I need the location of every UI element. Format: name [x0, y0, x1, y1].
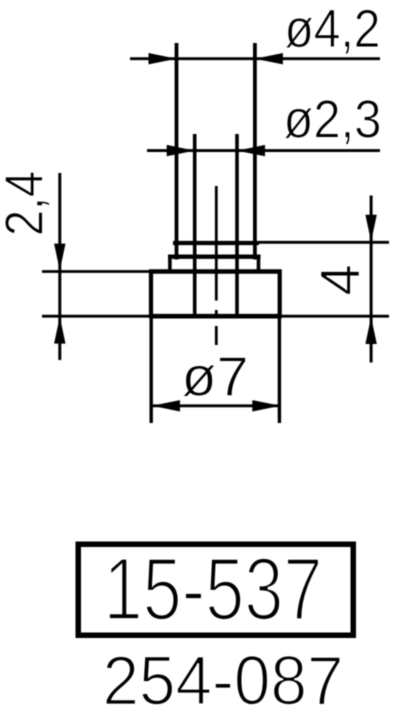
svg-text:4: 4 — [308, 264, 371, 295]
svg-text:ø7: ø7 — [182, 345, 249, 408]
svg-text:2,4: 2,4 — [0, 171, 55, 236]
svg-text:ø2,3: ø2,3 — [284, 90, 382, 150]
svg-text:15-537: 15-537 — [104, 539, 323, 639]
svg-text:254-087: 254-087 — [103, 642, 344, 711]
svg-text:ø4,2: ø4,2 — [285, 0, 381, 59]
